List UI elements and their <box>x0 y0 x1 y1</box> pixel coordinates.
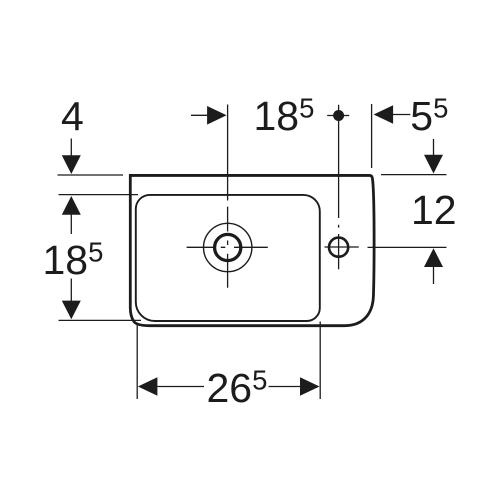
dim 18.5 left: arrowhead down <box>62 301 81 320</box>
dim 18.5 top: arrowhead right <box>207 106 227 125</box>
dim 5.5: leader line <box>393 114 411 116</box>
dim 12: arrowhead down <box>424 155 443 174</box>
dim 4: arrow down stem <box>70 139 72 158</box>
dim 26.5: dimension line <box>158 386 301 388</box>
drain centerline vertical upper <box>227 105 229 201</box>
drain outer circle <box>204 223 252 271</box>
dim 4/18.5: reference line bowl rim <box>59 194 139 196</box>
svg-text:4: 4 <box>61 93 84 139</box>
dim 26.5: arrowhead right <box>300 377 320 396</box>
washbasin outer outline <box>130 175 374 325</box>
drain inner circle <box>215 234 241 260</box>
dim 12: arrowhead up <box>424 248 443 267</box>
dim 12: reference line top <box>381 174 447 176</box>
inner bowl outline <box>136 195 320 321</box>
dim 26.5: arrowhead left <box>138 377 158 396</box>
top reference dot <box>333 110 344 121</box>
dim 12: arrow up stem <box>433 267 435 285</box>
dim 4: reference line top <box>58 174 124 176</box>
dim 12: arrow down stem <box>433 139 435 158</box>
tap hole centerline vertical <box>338 105 340 269</box>
tap hole circle <box>329 238 348 257</box>
top reference dot ticks <box>327 115 349 117</box>
dim 5.5: extension line right <box>371 104 373 168</box>
dim 18.5 top: leader line <box>191 114 208 116</box>
dim 12: reference line at tap center <box>368 246 447 248</box>
dim 5.5: arrowhead left <box>374 105 394 124</box>
dim 18.5 left: arrowhead up <box>62 196 81 215</box>
dim 26.5: extension line left <box>136 323 138 400</box>
dim 18.5 left: arrow up stem <box>70 213 72 234</box>
dim 4: arrowhead down <box>62 155 81 174</box>
dim 26.5: extension line right <box>319 322 321 400</box>
drain crosshair horizontal <box>187 246 268 248</box>
tap hole crosshair horizontal <box>325 246 359 248</box>
drain crosshair vertical <box>227 207 229 288</box>
svg-text:12: 12 <box>411 187 457 233</box>
dim 18.5 left: arrow down stem <box>70 279 72 303</box>
dim 18.5 left: reference line bottom <box>59 319 142 321</box>
